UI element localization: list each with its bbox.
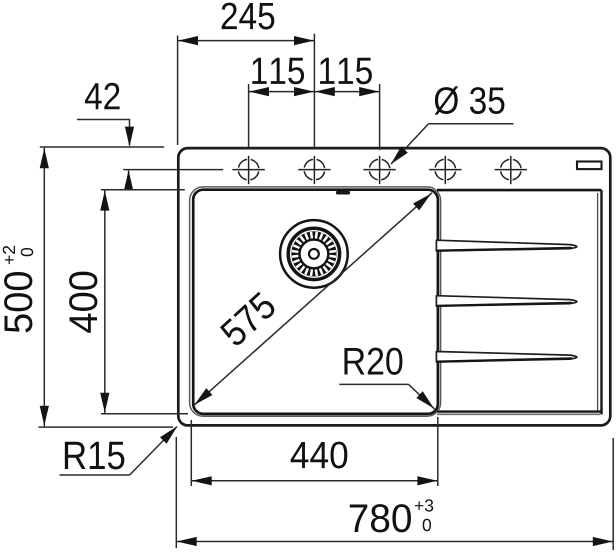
drainboard bottom edge	[437, 410, 602, 412]
drain groove 2	[436, 296, 577, 307]
dim 780: extension lines	[175, 437, 177, 548]
leader for R20	[339, 383, 408, 385]
leader for R15	[60, 474, 130, 476]
bowl outer edge (gray)	[190, 187, 441, 416]
dim 780: dimension line with arrows	[176, 541, 613, 543]
dim 440: extension lines	[190, 420, 192, 486]
drainboard right edge thin	[597, 193, 599, 412]
label 440	[291, 442, 348, 469]
label 575 (rotated along diagonal)	[219, 291, 278, 348]
top edge extension line	[40, 146, 164, 148]
tolerance +2/0 for 500 (rotated)	[3, 246, 33, 264]
dim 245: dimension line with arrows	[178, 40, 315, 42]
label 245	[222, 3, 275, 30]
faucet hole 1	[232, 156, 264, 184]
bottom edge extension line	[39, 426, 174, 428]
outer sink rim outline	[178, 148, 610, 425]
label diameter 35	[434, 86, 504, 114]
faucet hole 3	[363, 156, 395, 184]
label 780	[350, 504, 411, 532]
dim 440: dimension line with arrows	[191, 480, 437, 482]
dim 575 diagonal with arrows	[194, 193, 433, 406]
dim 245: extension lines	[177, 36, 179, 146]
label 115 left	[252, 58, 304, 85]
faucet hole axis extension line	[123, 169, 223, 171]
faucet hole 5	[495, 156, 527, 184]
drain groove 3	[436, 352, 577, 363]
drain groove 1	[436, 240, 577, 251]
dim 42: lower arrow pointing up	[128, 171, 130, 191]
dim 115 right dimension line	[314, 91, 379, 93]
dark mark on bowl top edge	[336, 191, 350, 195]
dim 42: shoulder line	[77, 119, 130, 121]
dim 400: extension lines	[101, 189, 185, 191]
dim 115 left extension	[248, 84, 250, 147]
label 42	[85, 83, 120, 110]
label R20	[344, 348, 402, 375]
dim 115 right extension	[379, 84, 381, 150]
label 400 (rotated)	[69, 272, 97, 333]
dim 42: upper arrow pointing down	[129, 120, 131, 146]
tolerance +3/0 for 780	[415, 499, 433, 531]
dim 500: dimension line with arrows	[43, 148, 45, 426]
drain strainer	[280, 220, 348, 288]
faucet hole 2	[298, 156, 330, 184]
label 115 right	[320, 58, 372, 85]
label R15	[65, 442, 124, 470]
dim 400: dimension line with arrows	[104, 190, 106, 413]
drainboard right edge thick	[600, 190, 602, 414]
bowl inner edge	[193, 190, 438, 414]
leader for diameter 35	[429, 123, 514, 125]
faucet hole 4	[429, 156, 461, 184]
drainboard top edge	[437, 189, 602, 192]
label 500 (rotated)	[4, 272, 32, 332]
dim 115 left dimension line	[249, 91, 315, 93]
overflow slot rectangle	[577, 162, 602, 170]
